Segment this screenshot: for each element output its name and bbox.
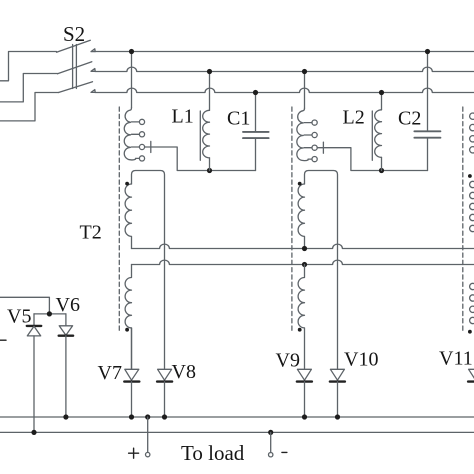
- plus terminal circle: [146, 452, 150, 456]
- wire tap selector A to LC node: [145, 147, 256, 171]
- transformer T2 section B secondary 1 top wire: [305, 171, 338, 370]
- svg-text:C2: C2: [398, 108, 421, 130]
- wire bus line 2 with hops: [95, 67, 474, 71]
- junction dot bus1 feed A: [129, 49, 134, 54]
- polarity dot secondary A1: [125, 182, 129, 186]
- diode V10 cathode bar: [330, 380, 345, 382]
- switch S2 blade pole 1: [57, 40, 91, 52]
- diode V9 triangle: [297, 369, 311, 380]
- minus sign: [282, 451, 287, 453]
- wire V5 V6 tee: [34, 313, 66, 315]
- wire plus terminal: [147, 417, 149, 452]
- capacitor C2 bottom plate: [414, 137, 440, 139]
- diode V7 wire top: [131, 328, 133, 369]
- diode V6 cathode bar: [59, 335, 73, 337]
- diode V6 triangle: [59, 326, 72, 336]
- tap lead 2 section A: [132, 133, 140, 135]
- wire C2 bottom to node line: [427, 138, 429, 171]
- wire feed bus3 to L2: [381, 93, 383, 110]
- transformer T2 section A core (dashed): [118, 107, 120, 333]
- transformer T2 section B core (dashed): [291, 107, 293, 333]
- wire phase C input staircase: [0, 93, 59, 121]
- tap circle 4 section A: [139, 156, 144, 161]
- diode V11 cathode bar: [468, 380, 474, 382]
- wire C1 bottom to node line: [255, 138, 257, 170]
- wire rail 1 with hops: [132, 244, 474, 248]
- svg-text:V11: V11: [439, 348, 473, 370]
- inductor L1 core bar: [199, 111, 201, 160]
- diode V5 cathode bar: [27, 325, 41, 327]
- diode V7 cathode bar: [124, 380, 139, 382]
- diode V9 cathode bar: [297, 380, 312, 382]
- transformer T2 section B secondary 2 coil: [298, 265, 304, 370]
- wire output bus A: [0, 416, 474, 418]
- tap lead 3 section A: [132, 146, 145, 148]
- polarity dot secondary B2: [298, 328, 302, 332]
- transformer T2 section A tapped primary winding: [124, 108, 135, 160]
- svg-text:V10: V10: [344, 349, 378, 371]
- switch S2 blade pole 3: [59, 82, 93, 93]
- svg-text:V7: V7: [98, 362, 122, 384]
- junction dot bus1 feed C2: [425, 49, 430, 54]
- diode V7 wire bottom: [131, 382, 133, 417]
- diode V7 triangle: [125, 369, 139, 380]
- tap circle 1 section B: [312, 120, 317, 125]
- junction dot bus2 feed B: [302, 69, 307, 74]
- junction dot V7 on bus A: [129, 414, 134, 419]
- junction dot rail2 section B: [302, 262, 307, 267]
- svg-text:T2: T2: [80, 222, 102, 244]
- diode V10 triangle: [330, 369, 344, 380]
- inductor L1 coil: [203, 110, 210, 158]
- wire feed bus1 to C2: [427, 52, 429, 132]
- svg-text:L2: L2: [343, 107, 365, 129]
- node line B junction dot at L2 bottom: [379, 168, 384, 173]
- svg-text:V8: V8: [172, 361, 196, 383]
- polarity dot secondary A2: [125, 328, 129, 332]
- polarity dot section C lower: [468, 330, 472, 334]
- capacitor C1 top plate: [243, 131, 269, 133]
- diode V5 wire bottom to bus B: [33, 336, 35, 433]
- section C secondary 1 circle chain: [470, 181, 474, 187]
- diode V6 wire top: [65, 314, 67, 326]
- diode V8 triangle: [158, 369, 172, 380]
- section C tapped winding circle chain: [470, 113, 474, 119]
- svg-text:S2: S2: [63, 22, 85, 46]
- minus dash at left edge: [0, 339, 6, 341]
- diode V5 (pointing up) wire top: [33, 314, 35, 326]
- tap circle 4 section B: [312, 157, 317, 162]
- wire bus line 1: [95, 51, 474, 53]
- wire feed bus2 to T2 section B primary: [304, 72, 306, 109]
- diode V11 triangle (clipped at edge): [469, 369, 474, 380]
- transformer T2 section A secondary 1 coil: [125, 184, 131, 249]
- wire L1 bottom to node: [209, 158, 211, 171]
- diode V8 wire bottom: [164, 382, 166, 417]
- wire tap selector B to LC node: [317, 148, 427, 171]
- polarity dot section C upper: [468, 174, 472, 178]
- junction dot V6 on bus A: [63, 414, 68, 419]
- capacitor C2 top plate: [414, 130, 440, 132]
- inductor L2 core bar: [371, 111, 373, 160]
- minus terminal circle: [269, 453, 273, 457]
- diode V6 wire bottom to bus A: [65, 336, 67, 417]
- svg-text:C1: C1: [227, 108, 250, 130]
- transformer T2 section A secondary 2 coil: [125, 265, 131, 370]
- wire output bus B: [0, 431, 474, 433]
- capacitor C1 bottom plate: [243, 137, 269, 139]
- junction dot V5 on bus B: [31, 430, 36, 435]
- transformer T2 section C core (dashed): [462, 107, 464, 333]
- wire bus line 3 with hops: [95, 88, 474, 92]
- svg-text:L1: L1: [172, 106, 194, 128]
- inductor L2 coil: [375, 110, 382, 158]
- switch S2 fixed contact pole 3: [91, 90, 95, 93]
- tap selector bar section B: [322, 142, 324, 153]
- diode V5 triangle: [27, 326, 40, 336]
- tap circle 1 section A: [139, 119, 144, 124]
- junction dot minus tap on bus B: [268, 430, 273, 435]
- wire minus terminal: [270, 432, 272, 452]
- diode V8 cathode bar: [157, 380, 172, 382]
- wire phase A input staircase: [0, 52, 57, 81]
- wire feed bus2 to L1: [209, 72, 211, 111]
- svg-text:V6: V6: [56, 294, 80, 316]
- node line A junction dot at L1 bottom: [207, 168, 212, 173]
- transformer T2 section A secondary 1 top wire: [132, 171, 165, 370]
- transformer T2 section B tapped primary winding: [297, 108, 308, 160]
- wire feed bus1 to T2 section A primary: [131, 52, 133, 108]
- svg-text:V5: V5: [7, 306, 31, 328]
- polarity dot secondary B1: [298, 182, 302, 186]
- wire rail 2 with hops: [132, 260, 474, 264]
- tap circle 3 section B: [312, 145, 317, 150]
- junction dot rail1 section B: [302, 246, 307, 251]
- diode V10 wire bottom: [337, 382, 339, 417]
- svg-text:V9: V9: [276, 350, 300, 372]
- junction dot bus3 feed C1: [253, 90, 258, 95]
- switch S2 fixed contact pole 2: [91, 69, 95, 72]
- svg-text:To load: To load: [181, 441, 245, 465]
- tap lead 4 section A: [136, 157, 140, 159]
- tap selector bar section A: [150, 141, 152, 152]
- tap circle 3 section A: [139, 144, 144, 149]
- junction dot V5 V6 tee: [47, 311, 52, 316]
- tap circle 2 section B: [312, 132, 317, 137]
- tap lead 1 section B: [304, 122, 312, 124]
- junction dot V8 on bus A: [162, 414, 167, 419]
- wire L2 bottom to node: [381, 157, 383, 170]
- tap lead 4 section B: [308, 158, 312, 160]
- plus sign: [129, 448, 139, 458]
- transformer T2 section B secondary 1 coil: [298, 184, 304, 249]
- wire phase B input staircase: [0, 74, 58, 102]
- junction dot bus3 feed L2: [379, 90, 384, 95]
- section C secondary 2 circle chain: [470, 283, 474, 289]
- diode V9 wire bottom: [304, 382, 306, 417]
- junction dot plus tap on bus A: [145, 414, 150, 419]
- switch S2 blade pole 2: [58, 62, 92, 74]
- wire feed bus3 to C1: [255, 93, 257, 132]
- junction dot V10 on bus A: [335, 414, 340, 419]
- tap lead 2 section B: [304, 134, 312, 136]
- switch S2 fixed contact pole 1: [91, 49, 95, 52]
- wire left input to V5 V6: [0, 297, 49, 314]
- switch S2 linkage bar: [73, 45, 77, 89]
- junction dot bus2 feed L1: [207, 69, 212, 74]
- tap lead 1 section A: [132, 121, 140, 123]
- tap circle 2 section A: [139, 132, 144, 137]
- tap lead 3 section B: [304, 147, 317, 149]
- junction dot V9 on bus A: [302, 414, 307, 419]
